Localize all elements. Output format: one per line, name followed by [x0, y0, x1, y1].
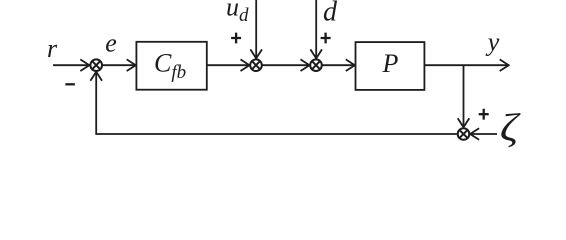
wire feedback from S4 left and up into S1	[96, 72, 457, 134]
svg-text:e: e	[105, 29, 117, 58]
block C_fb	[136, 42, 206, 90]
svg-text:y: y	[485, 28, 500, 57]
node zeta label	[500, 107, 521, 150]
wire S2 to summing junction S3	[263, 64, 310, 66]
wire e: S1 to C_fb	[103, 64, 136, 66]
wire S3 to block P	[323, 64, 355, 66]
svg-text:r: r	[47, 34, 58, 63]
summing junction S3	[310, 59, 322, 71]
summing junction S2	[250, 59, 262, 71]
summing junction S1	[90, 59, 102, 71]
plus sign at S3	[321, 33, 331, 44]
minus sign at S1	[65, 83, 75, 85]
wire d input into S3	[315, 0, 317, 58]
svg-text:d: d	[323, 0, 338, 28]
wire r input arrow into summing junction S1	[53, 64, 89, 66]
wire branch down from output to summing junction S4	[463, 65, 465, 127]
wire zeta input into S4	[470, 133, 497, 135]
wire C_fb to summing junction S2	[207, 64, 250, 66]
block P	[356, 42, 425, 90]
wire P to output y	[424, 64, 508, 66]
plus sign at S4	[479, 109, 489, 120]
wire u_d input into S2	[255, 0, 257, 58]
summing junction S4	[458, 128, 470, 140]
svg-text:ζ: ζ	[500, 107, 521, 150]
plus sign at S2	[231, 33, 241, 44]
svg-text:Cfb: Cfb	[154, 49, 186, 84]
svg-text:ud: ud	[226, 0, 249, 26]
svg-text:P: P	[382, 49, 399, 78]
